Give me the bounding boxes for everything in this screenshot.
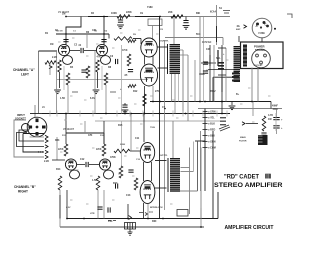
wire HT to gray rail [270,102,272,109]
resistor R16 V3B plate [102,144,106,156]
capacitor C13 B stage [116,183,118,188]
fuse holder F1 [252,18,272,38]
wire power tick 1 [218,47,226,49]
capacitor C17 line [108,207,110,212]
svg-text:C: C [265,23,267,27]
svg-text:CHANNEL "A": CHANNEL "A" [13,68,35,72]
wire bus tick 11 [192,111,194,117]
wire bottom dash 1 [108,220,111,222]
wire bottom drop 128 [127,204,129,219]
svg-text:INTERLOCK: INTERLOCK [150,207,163,209]
wire terminal tick 4 [203,129,208,131]
resistor R17 V3B cathode [96,176,100,190]
svg-text:o GRN: o GRN [208,111,216,114]
wire coupling B2 [89,164,99,166]
svg-text:FILTER: FILTER [239,141,247,143]
node junction 11 [251,101,253,103]
wire OT A secondary 3 [194,60,196,102]
wire top rail dark segment 2 [135,16,160,18]
svg-text:68K: 68K [196,13,201,15]
capacitor C14 B bypass [128,170,133,172]
resistor R27 grid stopper B [128,85,136,88]
resistor R11 decoupling 2 [171,15,183,19]
node junction 5 [65,113,67,115]
wire lead tick 38 [240,103,243,105]
node input arrow 2 [45,139,48,143]
wire top B+ rail [66,16,230,18]
wire lead tick 12 [134,103,137,105]
wire tap line [246,123,258,125]
wire gray rail right [198,108,282,110]
wire jack to V1 grid [39,50,58,52]
node hv j4 [204,101,206,103]
node bottom j6 [83,218,85,220]
tube V3B envelope lower [104,170,114,179]
node junction 15 [130,113,132,115]
wire terminal tick 3 [203,123,208,125]
wire jack to B 2 [17,133,45,147]
node junction 3 [159,16,161,18]
wire stage B drop [101,66,103,90]
wire top rail dark segment [88,16,108,18]
svg-text:40MF: 40MF [272,105,278,108]
wire lead tick 10 [84,99,87,101]
capacitor C3 stage [116,59,118,64]
svg-text:6.3V: 6.3V [90,97,95,100]
wire bus tick 9 [172,111,174,117]
wire jack feed vertical 2 [34,105,36,117]
svg-text:117V.AC: 117V.AC [202,41,212,44]
node bottom j1 [127,218,129,220]
svg-text:5U4: 5U4 [196,33,201,36]
wire bus cap stub [124,103,126,105]
resistor R3 V1A grid [58,60,62,72]
node junction 10 [221,101,223,103]
node hv j1 [152,101,154,103]
wire V1A plate drop [66,17,81,45]
wire V3B down1 [97,190,99,219]
rectifier stack SR2 [220,117,226,125]
wire heater tick A2 [110,91,116,93]
wire cap column tail [276,128,278,134]
wire OT B primary lead top [155,160,167,162]
wire coupling A [70,50,80,52]
wire B tube link left [143,162,145,181]
node junction 1 [65,16,67,18]
wire lead tick 27 [118,173,121,175]
wire lead tick 19 [140,123,143,125]
svg-text:SEL: SEL [216,57,221,60]
wire bus tick 5 [116,111,118,117]
input jack J1 [22,117,47,137]
ground V1B cathode [93,90,100,94]
label title III [265,174,270,179]
capacitor C3a interstage [81,70,86,72]
wire bottom heater line [67,218,218,220]
capacitor C23 can filter [257,135,268,145]
node junction 2 [103,16,105,18]
wire coupling B [77,164,85,166]
fuse F2 thermal [125,223,136,230]
svg-text:100K: 100K [111,12,117,15]
wire bottom right vertical [217,192,219,219]
ground V1A cathode [54,90,61,94]
svg-text:INPUT: INPUT [17,113,25,117]
wire OT A bottom lead 2 [174,74,176,114]
tube V2 7189 lower [140,64,157,86]
tube V3B 12AX7 [99,159,110,170]
wire bus tick 10 [182,111,184,117]
wire V1A cathode down [59,72,61,88]
wire OT A primary lead bottom [158,67,169,69]
svg-text:1.5K: 1.5K [92,179,97,182]
wire lead tick 39 [252,121,255,123]
svg-text:220K: 220K [58,149,64,151]
svg-text:C11: C11 [135,137,140,140]
resistor R13 V3A plate [64,144,68,156]
svg-text:AMPLIFIER CIRCUIT: AMPLIFIER CIRCUIT [225,225,275,231]
wire OT A secondary 1 [182,50,184,114]
node input arrow 5 [45,155,48,159]
wire OT A B+ drop [173,17,175,45]
wire B plate rail [66,132,104,134]
node input arrow 3 [45,145,48,149]
wire lead tick 13 [150,95,153,97]
node fuse arrow [244,25,247,29]
wire title corner h [195,140,205,142]
capacitor C12 coupling B [86,162,88,167]
svg-text:R23: R23 [55,139,60,142]
wire OT A secondary 2 [187,55,189,121]
resistor R4 V1A cathode [66,73,70,85]
power transformer T3 box [241,42,284,69]
transformer T1 output A [170,44,181,74]
wire power seg 2 [209,55,211,66]
wire lead tick 23 [124,155,127,157]
wire lead tick 32 [150,211,153,213]
wire lead tick 20 [176,117,179,119]
node bottom j2 [147,218,149,220]
svg-text:6CA4: 6CA4 [210,11,217,14]
wire phase feed [86,34,88,48]
wire V3A grid drop [56,137,58,160]
wire tube link right [152,56,154,65]
resistor R10 bias [127,54,131,66]
node junction 17 [65,33,67,35]
ground C4 [117,25,124,29]
wire output vertical gray [164,40,166,210]
wire lead tick 1 [58,41,61,43]
svg-text:4.7K: 4.7K [268,114,273,117]
switch S2 interlock [177,210,188,217]
wire bias frame v [212,77,214,101]
svg-text:20K: 20K [168,11,173,14]
node fuse arrow mark [129,216,132,220]
wire power vertical 1b [203,17,205,102]
capacitor C1 plate bypass [63,40,68,42]
wire power vertical 5 [225,48,227,102]
capacitor C8 filter [183,21,188,23]
wire HT bus right [150,101,271,103]
wire jack to B 1 [19,130,44,141]
wire right col [275,113,277,131]
svg-text:o COM: o COM [208,147,216,150]
wire right drop A [200,148,202,219]
tube V1B envelope lower [101,56,111,65]
wire bus tick 12 [202,111,204,117]
wire cap C8 drop [185,17,187,21]
wire B tube link right [151,162,153,181]
svg-text:47K: 47K [88,134,93,137]
svg-text:470K: 470K [122,49,128,52]
wire fuse down [261,38,263,42]
wire OT B sec up 1 [189,148,191,215]
svg-text:270: 270 [155,90,160,93]
wire PT secondary down 1 [251,68,253,102]
wire V3A down2 [66,190,68,219]
transformer T2 output B [170,158,180,192]
ground line fuse [128,232,133,235]
svg-text:220K: 220K [96,149,102,151]
svg-text:40MF: 40MF [199,73,206,76]
svg-text:450V: 450V [273,108,279,111]
wire B mid vertical [121,121,123,166]
wire jack stub [30,113,42,115]
tube V4 7189 upper [140,143,154,163]
svg-text:2.2K: 2.2K [52,56,57,59]
capacitor C16 line [97,207,102,209]
wire bottom drop 1 [59,195,61,219]
node junction 9 [199,101,201,103]
node bottom j3 [162,218,164,220]
wire PT primary lead [238,36,240,42]
resistor R22 B stage [134,178,138,190]
wire main ground bus [42,113,230,115]
wire power tick 2 [218,74,226,76]
wire bias frame h [213,76,235,78]
svg-text:o YEL: o YEL [208,117,215,120]
wire cap C4 drop [120,17,122,20]
node junction 4 [173,16,175,18]
wire OT B primary lead bottom [155,187,167,189]
tube V1B 12AX7 [96,44,107,55]
svg-text:HTR: HTR [90,213,95,215]
resistor R6a interstage [86,66,90,78]
wire V1A stage down [67,85,69,114]
wire bus tick 4 [92,111,94,117]
wire jack feed vertical [38,51,40,113]
wire V1B plate drop [103,17,105,45]
svg-text:OUT.TR.: OUT.TR. [159,155,168,157]
svg-text:R15: R15 [118,124,123,127]
node junction 8 [159,101,161,103]
svg-text:R12: R12 [133,90,138,93]
wire filter link [252,102,254,117]
wire lead tick 26 [90,175,93,177]
wire output grid drop [140,39,142,45]
wire jack to B 3 [23,134,44,153]
svg-text:450V: 450V [210,90,216,93]
resistor R9 grid feed [114,37,132,41]
wire terminal tick 6 [203,141,208,143]
capacitor C22 main filter [261,133,266,135]
resistor R5 decoupling [117,15,130,19]
wire OT A primary lead top [158,46,169,48]
node bottom j5 [66,218,68,220]
node top right tick [287,14,292,18]
resistor R26 grid stopper [128,40,136,43]
wire lead tick 5 [86,55,89,57]
wire right drop B [212,131,214,219]
node bottom j4 [200,226,202,228]
wire OT B sec up 2 [193,142,195,172]
node hv j2 [159,113,161,115]
svg-text:A: A [256,24,258,28]
wire B plate drop 2 [103,121,105,144]
wire lead tick 30 [86,203,89,205]
node speaker tap smudge [219,125,230,131]
svg-text:2.2K: 2.2K [44,160,49,163]
wire V1A grid vertical [56,51,58,114]
wire B cathode down [143,203,145,219]
svg-text:220K: 220K [120,144,126,146]
wire power vertical 1 [199,17,201,102]
wire screen drop [152,86,154,102]
wire B plate drop 1 [65,114,67,145]
wire fuse gnd [129,229,131,232]
wire tube link left [144,56,146,65]
wire output vertical black [159,17,161,219]
wire cap column drop [276,109,278,118]
tube V3A 12AX7 [65,159,76,170]
node hv j3 [164,108,166,110]
svg-text:FUSE: FUSE [259,32,266,35]
resistor R18 B grid feed [114,149,130,153]
svg-text:MAIN: MAIN [240,136,246,139]
wire OT B secondary 2 [181,171,194,173]
wire lead tick 34 [206,69,209,71]
capacitor C2 coupling A [81,48,83,53]
node bundle dot 2 [40,151,41,152]
wire bus tick 14 [226,111,228,117]
wire feedback vertical [200,131,202,191]
wire jack bottom line [23,133,44,135]
wire title corner bottom [180,190,198,192]
wire lead tick 14 [172,99,175,101]
wire channel A mid gray rail [57,79,148,81]
svg-text:OUT.TR.: OUT.TR. [160,41,169,43]
wire switch drop black [216,26,218,42]
wire B grid drop [130,114,132,152]
wire channel A grid rail [56,33,109,35]
wire light rail mid [95,120,226,122]
transformer T3 primary winding [234,46,241,82]
node input arrow 4 [45,150,48,154]
node volume wiper [49,65,52,69]
wire V3A down1 [59,190,61,227]
wire lead tick 21 [60,151,63,153]
ground bus cap [122,110,129,114]
tube V2 7189 upper [141,38,157,57]
wire lead tick 22 [92,147,95,149]
wire B output grid drop [143,114,145,143]
wire lead tick 17 [80,123,83,125]
resistor R21 bleeder [262,116,266,131]
wire bottom drop hv [103,190,105,219]
wire terminal strip stem [204,109,206,192]
node feedback box [148,19,162,26]
wire lead tick 15 [190,95,193,97]
wire bus tick 7 [142,111,144,117]
svg-text:CHANNEL "B": CHANNEL "B" [14,185,36,189]
ground HT bus [229,106,236,110]
svg-text:"RD" CADET: "RD" CADET [224,173,259,180]
wire bottom drop 148 [147,204,149,219]
capacitor C25 filter b [273,126,279,128]
tube V3A envelope lower [70,170,80,179]
resistor R19 B bias [119,166,123,178]
capacitor C20 electrolytic [203,62,208,64]
wire OT A primary side [167,44,169,74]
transformer T3 terminal lugs [232,73,239,82]
node junction 12 [124,113,126,115]
svg-text:R14: R14 [56,168,61,171]
capacitor C6 bypass [128,70,133,72]
svg-text:1M: 1M [50,43,53,46]
AC socket [252,49,271,68]
wire power link [208,69,234,71]
svg-text:470K: 470K [110,156,116,159]
wire OT A bottom lead 3 [178,74,180,102]
wire power vertical 2 [209,45,211,102]
wire gnd stub right [231,102,233,106]
svg-text:o BLK: o BLK [208,123,215,126]
wire PT secondary down 2 [257,68,259,102]
ground C8 [183,26,190,30]
wire lead tick 16 [64,119,67,121]
wire coupling A2 [84,50,96,52]
wire OT A secondary top2 [180,54,188,56]
svg-text:7189: 7189 [147,6,153,9]
wire power dark seg [217,50,219,66]
capacitor C5 plate bypass [101,40,106,42]
svg-text:R17: R17 [113,182,118,185]
wire OT A to power [165,37,223,39]
wire jack to B 4 [30,136,44,139]
node bundle dot 3 [42,151,43,152]
resistor R14 V3A cathode [58,176,62,190]
svg-text:R30: R30 [152,220,157,223]
resistor R12 output cathode [143,94,147,106]
wire bottom drop 201 [200,208,202,227]
svg-text:7189: 7189 [150,127,156,129]
wire lead tick 31 [112,199,115,201]
wire lead tick 25 [76,169,79,171]
wire lead tick 8 [156,33,159,35]
svg-text:47K: 47K [97,56,102,59]
rectifier SR1 [218,62,224,70]
resistor R8 V1B cathode [104,73,108,85]
capacitor C21 electrolytic [203,71,208,73]
wire feedback box drop [152,26,154,41]
transformer T3 inner winding [243,45,247,67]
wire channel A plate feed [133,38,141,40]
wire lead tick 2 [72,37,75,39]
wire bottom return line [60,226,204,228]
svg-text:R2 1M: R2 1M [56,31,63,33]
svg-text:C20: C20 [206,48,211,51]
svg-text:o GRN: o GRN [208,141,216,144]
